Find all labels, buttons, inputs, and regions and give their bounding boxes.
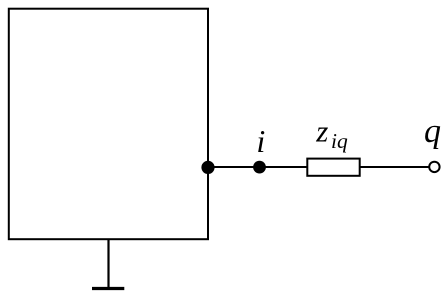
svg-text:iq: iq [331, 129, 348, 153]
svg-text:i: i [256, 123, 265, 159]
svg-text:z: z [315, 114, 328, 149]
svg-text:q: q [424, 113, 441, 150]
